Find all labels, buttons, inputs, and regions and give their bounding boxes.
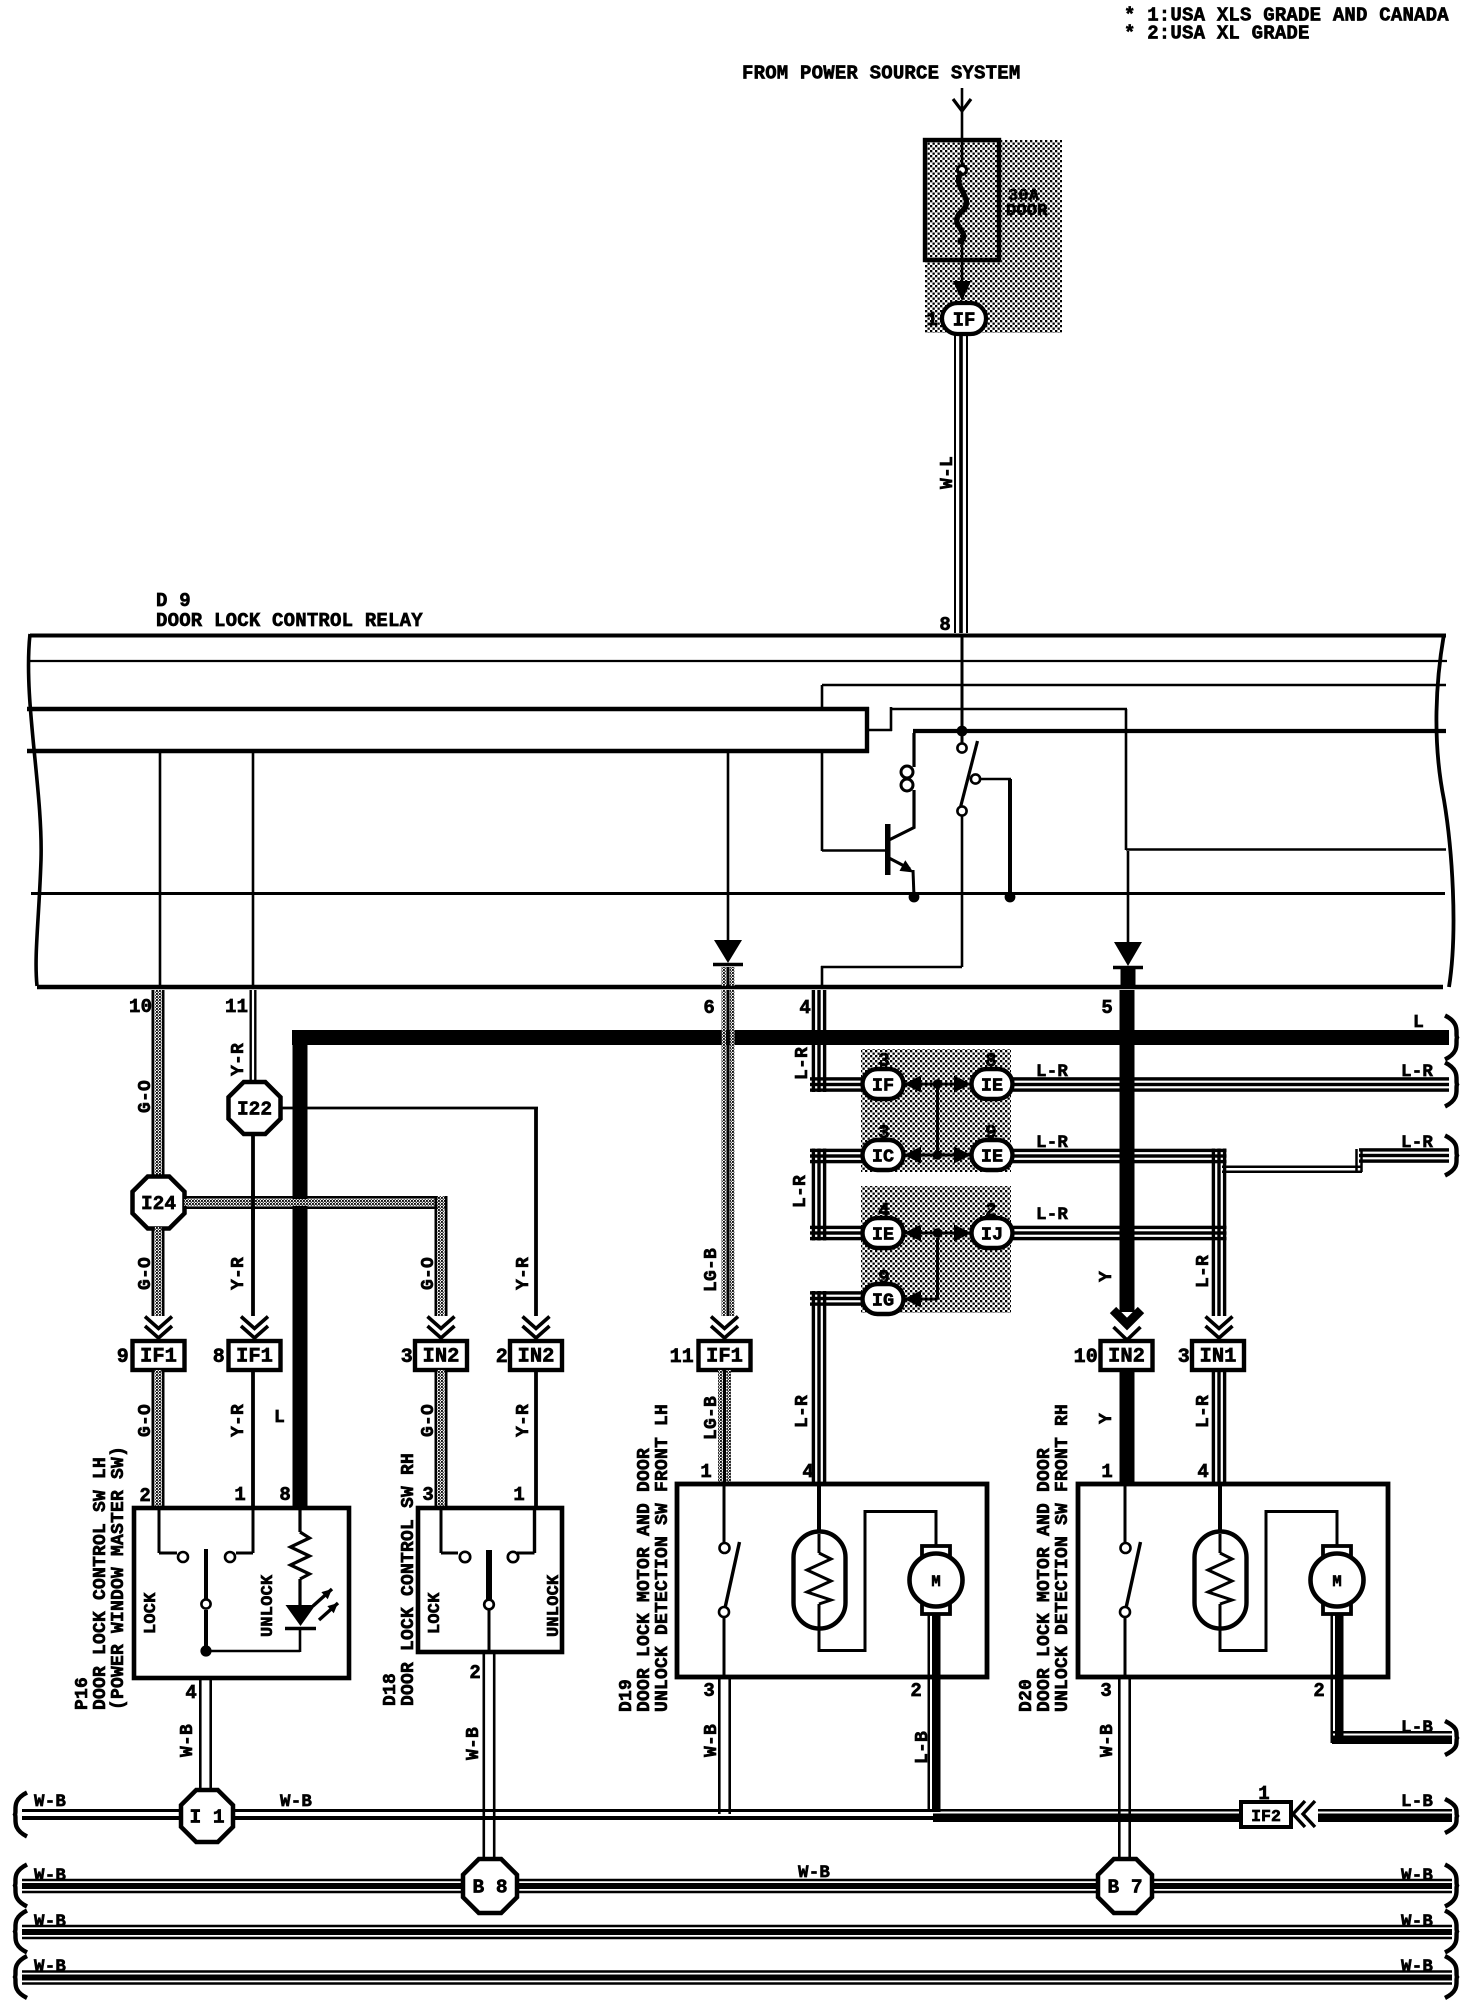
svg-text:IF: IF [953,310,976,332]
svg-text:3: 3 [1178,1346,1190,1369]
svg-text:DOOR LOCK MOTOR AND DOOR: DOOR LOCK MOTOR AND DOOR [635,1448,655,1712]
svg-text:FROM POWER SOURCE SYSTEM: FROM POWER SOURCE SYSTEM [742,63,1020,85]
svg-text:W-B: W-B [1401,1912,1433,1932]
svg-text:LG-B: LG-B [702,1248,722,1292]
svg-text:D19: D19 [617,1679,637,1712]
svg-text:W-B: W-B [34,1866,66,1886]
svg-text:IN2: IN2 [518,1346,555,1369]
svg-text:* 2:USA XL GRADE: * 2:USA XL GRADE [1124,23,1310,45]
svg-text:IN1: IN1 [1200,1346,1237,1369]
svg-text:W-B: W-B [1401,1957,1433,1977]
svg-text:L: L [274,1408,285,1428]
svg-text:11: 11 [670,1346,694,1369]
svg-text:UNLOCK DETECTION SW FRONT LH: UNLOCK DETECTION SW FRONT LH [653,1404,673,1712]
svg-text:L-R: L-R [793,1047,813,1080]
svg-text:LOCK: LOCK [426,1592,445,1634]
svg-text:(POWER WINDOW MASTER SW): (POWER WINDOW MASTER SW) [109,1446,129,1710]
svg-text:IN2: IN2 [1108,1346,1145,1369]
svg-text:2: 2 [1313,1680,1325,1702]
svg-text:3: 3 [703,1680,715,1702]
svg-text:L-R: L-R [1036,1205,1068,1225]
svg-text:W-B: W-B [178,1724,198,1757]
svg-text:L-R: L-R [1401,1133,1433,1153]
svg-text:I22: I22 [237,1099,272,1121]
svg-text:L-R: L-R [1194,1255,1214,1288]
svg-text:D20: D20 [1017,1679,1037,1712]
svg-text:Y: Y [1097,1413,1117,1424]
svg-text:2: 2 [469,1662,481,1684]
svg-text:L-R: L-R [793,1395,813,1428]
svg-text:3: 3 [1100,1680,1112,1702]
svg-text:W-B: W-B [34,1957,66,1977]
svg-text:IC: IC [872,1147,894,1168]
svg-text:8: 8 [213,1346,225,1369]
svg-text:I 1: I 1 [189,1807,224,1829]
svg-text:9: 9 [878,1267,890,1289]
svg-text:W-B: W-B [464,1727,484,1760]
svg-text:1: 1 [700,1461,712,1483]
svg-text:P16: P16 [73,1677,93,1710]
svg-text:L-B: L-B [1401,1792,1433,1812]
svg-text:4: 4 [799,997,811,1019]
svg-text:W-B: W-B [280,1792,312,1812]
svg-text:L-R: L-R [1194,1395,1214,1428]
svg-text:G-O: G-O [136,1080,156,1113]
svg-text:5: 5 [1101,997,1113,1019]
svg-text:W-B: W-B [34,1792,66,1812]
svg-text:W-B: W-B [1098,1724,1118,1757]
svg-text:DOOR LOCK MOTOR AND DOOR: DOOR LOCK MOTOR AND DOOR [1035,1448,1055,1712]
svg-text:M: M [931,1573,940,1591]
svg-text:IF1: IF1 [706,1346,743,1369]
svg-text:1: 1 [1258,1783,1270,1805]
svg-text:2: 2 [910,1680,922,1702]
svg-text:11: 11 [225,996,248,1018]
svg-text:DOOR LOCK CONTROL RELAY: DOOR LOCK CONTROL RELAY [156,610,423,632]
svg-text:4: 4 [878,1200,890,1222]
svg-text:Y-R: Y-R [514,1404,534,1437]
svg-text:3: 3 [422,1484,434,1506]
svg-text:IF2: IF2 [1251,1807,1281,1826]
svg-text:9: 9 [985,1122,997,1144]
svg-text:9: 9 [117,1346,129,1369]
svg-text:3: 3 [878,1122,890,1144]
svg-text:W-B: W-B [1401,1866,1433,1886]
svg-text:L: L [1413,1013,1424,1033]
svg-text:1: 1 [1101,1461,1113,1483]
svg-text:Y-R: Y-R [229,1257,249,1290]
svg-text:3: 3 [878,1050,890,1072]
svg-text:D 9: D 9 [156,590,191,612]
svg-text:Y-R: Y-R [229,1043,249,1076]
svg-text:IF: IF [872,1076,894,1097]
svg-text:L-R: L-R [791,1175,811,1208]
svg-text:8: 8 [985,1050,997,1072]
svg-text:B 7: B 7 [1107,1877,1142,1899]
svg-text:IN2: IN2 [423,1346,460,1369]
svg-text:UNLOCK: UNLOCK [259,1574,278,1637]
svg-text:2: 2 [985,1200,997,1222]
svg-text:D18: D18 [381,1673,401,1706]
svg-text:4: 4 [1197,1461,1209,1483]
svg-text:1: 1 [234,1484,246,1506]
svg-text:W-B: W-B [34,1912,66,1932]
svg-text:1: 1 [513,1484,525,1506]
svg-text:G-O: G-O [419,1404,439,1437]
svg-text:UNLOCK: UNLOCK [545,1574,564,1637]
svg-text:4: 4 [802,1461,814,1483]
svg-text:3: 3 [401,1346,413,1369]
svg-text:L-B: L-B [1401,1718,1433,1738]
svg-text:2: 2 [496,1346,508,1369]
svg-text:1: 1 [926,309,938,331]
svg-text:UNLOCK DETECTION SW FRONT RH: UNLOCK DETECTION SW FRONT RH [1053,1404,1073,1712]
svg-text:L-R: L-R [1401,1062,1433,1082]
svg-text:Y-R: Y-R [514,1257,534,1290]
svg-text:10: 10 [129,996,152,1018]
svg-text:IG: IG [872,1291,894,1312]
svg-text:IJ: IJ [981,1225,1003,1246]
svg-text:4: 4 [185,1682,197,1704]
svg-text:IF1: IF1 [236,1346,273,1369]
svg-text:IE: IE [981,1147,1003,1168]
svg-text:Y-R: Y-R [229,1404,249,1437]
svg-text:LG-B: LG-B [702,1396,722,1440]
svg-text:L-R: L-R [1036,1062,1068,1082]
svg-text:W-B: W-B [702,1724,722,1757]
svg-text:8: 8 [939,614,951,636]
svg-text:6: 6 [703,997,715,1019]
svg-text:G-O: G-O [136,1257,156,1290]
svg-text:G-O: G-O [136,1404,156,1437]
svg-text:DOOR LOCK CONTROL SW RH: DOOR LOCK CONTROL SW RH [399,1453,419,1706]
svg-text:W-B: W-B [798,1863,830,1883]
svg-text:8: 8 [279,1484,291,1506]
svg-text:L-B: L-B [913,1731,933,1764]
svg-text:2: 2 [139,1485,151,1507]
svg-text:B 8: B 8 [472,1877,507,1899]
svg-text:DOOR LOCK CONTROL SW LH: DOOR LOCK CONTROL SW LH [91,1457,111,1710]
svg-text:LOCK: LOCK [142,1592,161,1634]
svg-text:IF1: IF1 [140,1346,177,1369]
svg-text:DOOR: DOOR [1006,202,1048,221]
svg-text:IE: IE [981,1076,1003,1097]
svg-text:I24: I24 [141,1193,176,1215]
svg-text:IE: IE [872,1225,894,1246]
svg-text:W-L: W-L [938,456,958,489]
svg-text:M: M [1332,1573,1341,1591]
svg-text:10: 10 [1074,1346,1098,1369]
svg-text:G-O: G-O [419,1257,439,1290]
svg-text:Y: Y [1097,1271,1117,1282]
